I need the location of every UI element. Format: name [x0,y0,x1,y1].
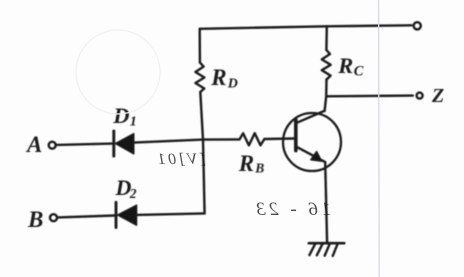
transistor Q1 base bar [294,120,298,151]
ground tick 1 [309,244,315,255]
wire RD bottom to junction to D2 corner vertical [200,92,204,213]
resistor RC [322,50,331,80]
svg-text:C: C [354,64,364,80]
svg-text:D: D [112,103,129,128]
svg-text:[V]01: [V]01 [155,151,206,168]
svg-text:B: B [254,160,264,175]
wire D2 to corner [137,213,205,215]
resistor RD [195,63,204,93]
transistor Q1 collector stroke [296,111,325,123]
diode D1 triangle [115,134,133,154]
svg-text:A: A [25,132,42,157]
svg-text:B: B [27,207,43,232]
wire input A to D1 [57,144,113,145]
ground tick 4 [333,244,338,256]
ground tick 2 [317,244,323,256]
wire RC to Z node to collector [325,80,327,112]
svg-text:R: R [238,151,254,176]
transistor Q1 emitter stroke [296,146,325,162]
wire RD branch upper vertical [198,29,201,63]
svg-text:R: R [337,53,353,78]
wire RC branch vertical upper [325,26,328,50]
wire RB to base [264,137,294,140]
resistor RB [240,133,265,145]
svg-text:R: R [210,65,226,90]
wire input B to D2 [58,216,115,218]
ground bar [309,242,344,245]
diode D2 cathode bar [115,202,118,227]
faint scan artifacts [155,151,331,220]
svg-text:2: 2 [129,186,137,201]
wire top supply rail [200,25,412,29]
wire emitter to ground [325,162,327,243]
svg-text:Z: Z [431,85,444,107]
diode D1 cathode bar [112,131,115,156]
transistor Q1 emitter arrowhead [311,152,322,162]
terminal ring top-right supply [414,22,421,29]
wire from D1 through junction to RB [134,139,240,142]
diode D2 triangle [118,205,137,225]
svg-text:D: D [227,76,238,91]
wire output Z [326,94,413,97]
transistor Q1 circle [283,113,341,171]
ground tick 3 [325,244,330,256]
faint page fold line [378,0,381,277]
svg-text:1: 1 [130,114,137,129]
terminal ring input A [49,142,56,149]
terminal ring output Z [417,93,423,99]
svg-text:16 - 23: 16 - 23 [253,199,331,220]
terminal ring input B [50,214,57,221]
